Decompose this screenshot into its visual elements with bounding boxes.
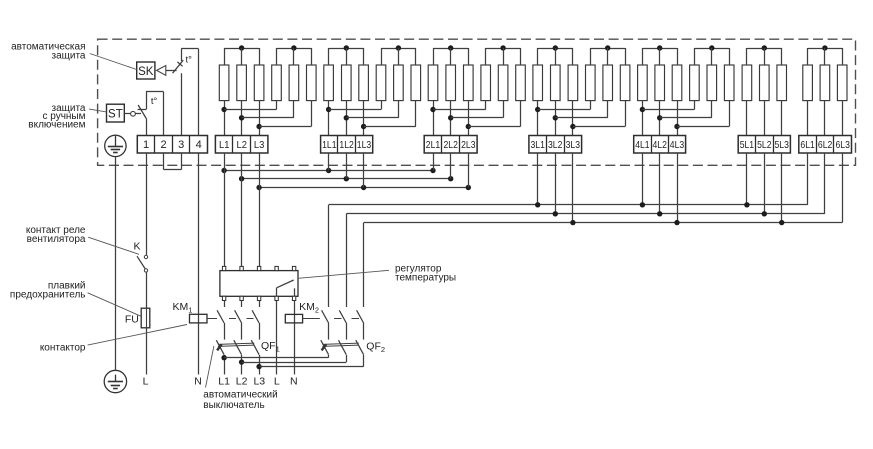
svg-text:1L3: 1L3 [357,139,372,151]
svg-text:5L3: 5L3 [775,139,790,151]
svg-text:1L1: 1L1 [322,139,337,151]
svg-text:температуры: температуры [395,273,456,284]
svg-text:6L2: 6L2 [818,139,833,151]
svg-text:предохранитель: предохранитель [10,289,86,300]
svg-text:L3: L3 [253,376,265,388]
svg-text:L3: L3 [254,139,265,151]
svg-text:SK: SK [138,66,154,78]
svg-text:4L1: 4L1 [635,139,650,151]
svg-text:K: K [133,240,140,252]
svg-text:4L3: 4L3 [670,139,685,151]
svg-text:3: 3 [178,139,184,151]
svg-text:N: N [290,376,298,388]
svg-text:контактор: контактор [40,343,86,354]
svg-text:5L2: 5L2 [757,139,772,151]
svg-text:2L1: 2L1 [426,139,441,151]
svg-text:FU: FU [125,314,139,326]
svg-text:включением: включением [28,120,85,131]
svg-text:L2: L2 [236,376,248,388]
svg-text:6L3: 6L3 [836,139,851,151]
svg-text:t°: t° [186,55,193,66]
svg-text:L2: L2 [237,139,248,151]
svg-text:2L2: 2L2 [444,139,459,151]
svg-text:1: 1 [143,139,149,151]
svg-text:5L1: 5L1 [740,139,755,151]
svg-text:3L1: 3L1 [531,139,546,151]
svg-text:вентилятора: вентилятора [27,234,86,245]
svg-text:выключатель: выключатель [203,400,264,411]
svg-text:3L3: 3L3 [566,139,581,151]
svg-text:L1: L1 [218,376,230,388]
svg-text:ST: ST [108,109,123,121]
svg-text:2: 2 [161,139,167,151]
svg-text:L: L [143,376,149,388]
svg-text:3L2: 3L2 [548,139,563,151]
svg-text:L: L [274,376,280,388]
svg-text:t°: t° [151,96,158,107]
svg-text:6L1: 6L1 [800,139,815,151]
svg-text:4L2: 4L2 [653,139,668,151]
svg-text:L1: L1 [219,139,230,151]
svg-text:1L2: 1L2 [339,139,354,151]
svg-text:2L3: 2L3 [461,139,476,151]
svg-text:4: 4 [196,139,202,151]
svg-text:защита: защита [52,50,86,61]
svg-text:N: N [194,376,202,388]
